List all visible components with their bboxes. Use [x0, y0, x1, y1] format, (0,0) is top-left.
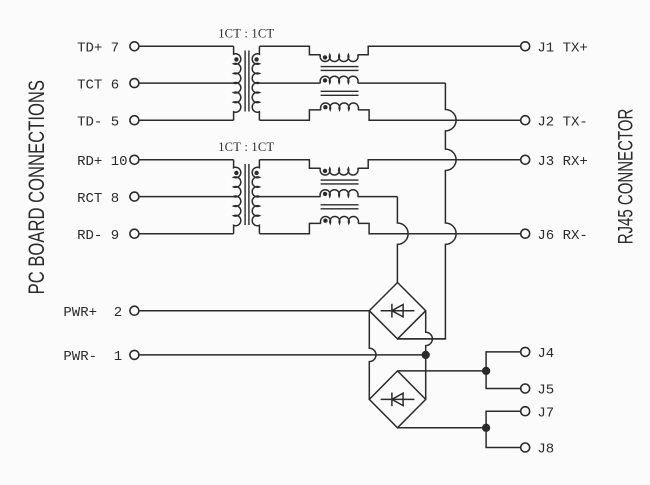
wire D2 top corner to J4/J5 junction: [398, 370, 487, 372]
connector pin J2 terminal: [521, 116, 530, 125]
wire TD- pin 5 to T1 primary: [139, 119, 234, 121]
wire T1 choke C output: [358, 110, 521, 120]
wire PWR- pin 1 to junction: [139, 354, 426, 356]
svg-text:J7: J7: [537, 405, 554, 421]
transformer T2 core line 2: [248, 164, 250, 225]
choke T2 winding B polarity dot: [323, 192, 327, 196]
transformer T2 secondary winding: [252, 160, 259, 234]
pin terminal RD+: [130, 155, 139, 164]
connector pin J1 terminal: [521, 42, 530, 51]
diode D1 lead: [381, 310, 415, 312]
svg-text:J8: J8: [537, 442, 554, 458]
pin terminal TCT: [130, 79, 139, 88]
diode D1 cathode bar: [391, 304, 393, 318]
choke T1 winding B polarity dot: [323, 78, 327, 82]
choke T1 winding C polarity dot: [323, 105, 327, 109]
choke T2 winding B: [320, 190, 358, 197]
junction dot PWR- / bridge right vertical: [422, 351, 430, 359]
diode D2 lead: [381, 398, 415, 400]
svg-text:1CT : 1CT: 1CT : 1CT: [218, 140, 274, 154]
wire bridge left vertical with hop over PWR-: [369, 311, 376, 400]
connector pin J7 terminal: [521, 407, 530, 416]
pin terminal RD-: [130, 229, 139, 238]
wire T1 secondary center tap to choke B: [259, 82, 320, 84]
svg-text:TD- 5: TD- 5: [77, 114, 119, 130]
transformer T2 secondary polarity dot: [254, 171, 258, 175]
svg-text:RD+ 10: RD+ 10: [77, 154, 127, 170]
choke T2 winding C: [321, 217, 359, 224]
connector pin J3 terminal: [521, 155, 530, 164]
choke T1 winding A: [320, 55, 358, 62]
svg-text:RJ45 CONNECTOR: RJ45 CONNECTOR: [614, 109, 637, 245]
svg-text:TCT 6: TCT 6: [77, 77, 119, 93]
choke T2 winding C polarity dot: [323, 219, 327, 223]
wire TCT pin 6 to T1 primary center tap: [139, 82, 234, 84]
pin terminal TD-: [130, 116, 139, 125]
transformer T1 primary winding: [234, 46, 241, 120]
wire bridge right vertical with hop and junction: [426, 311, 433, 400]
wire T1 secondary top to choke: [259, 46, 320, 54]
diode bridge D1 diamond outline: [369, 283, 425, 339]
choke T2 core pair 2 line 1: [321, 204, 359, 206]
choke T2 winding A: [320, 168, 358, 175]
transformer T2 core line 1: [244, 164, 246, 225]
wire T1 secondary bottom to choke C: [259, 110, 321, 120]
wire T1 choke B output to vertical: [358, 82, 446, 84]
svg-text:J1 TX+: J1 TX+: [537, 41, 587, 57]
svg-text:RCT 8: RCT 8: [77, 191, 119, 207]
diode D1 triangle: [392, 305, 403, 317]
transformer T1 secondary winding: [252, 46, 259, 120]
pin terminal PWR-&#160;&#160;1: [130, 350, 139, 359]
choke T1 winding A polarity dot: [323, 55, 327, 59]
choke T1 core pair 2 line 2: [321, 94, 359, 96]
wire net RCT-mid vertical with hop: [397, 197, 408, 283]
wire D2 bottom corner to J7/J8 junction: [398, 427, 487, 429]
wire T2 choke A output: [358, 160, 521, 168]
wire T2 choke C output: [358, 223, 521, 233]
transformer T1 core line 2: [248, 51, 250, 112]
wire TD+ pin 7 to T1 primary: [139, 45, 234, 47]
wire net TCT-mid vertical with hops: [398, 83, 457, 339]
transformer T1 secondary polarity dot: [254, 57, 258, 61]
transformer T2 primary polarity dot: [234, 171, 238, 175]
svg-text:J6 RX-: J6 RX-: [537, 228, 587, 244]
wire T1 choke A output: [358, 46, 521, 54]
transformer T1 core line 1: [244, 51, 246, 112]
connector pin J5 terminal: [521, 384, 530, 393]
junction dot J7/J8 bracket: [482, 424, 490, 432]
connector pin J8 terminal: [521, 443, 530, 452]
svg-text:J2 TX-: J2 TX-: [537, 114, 587, 130]
transformer T2 primary winding: [234, 160, 241, 234]
transformer T1 primary polarity dot: [234, 57, 238, 61]
pin terminal TD+: [130, 42, 139, 51]
choke T2 core pair 2 line 2: [321, 208, 359, 210]
choke T1 core pair 1 line 2: [321, 69, 359, 71]
svg-text:J5: J5: [537, 383, 554, 399]
svg-text:J4: J4: [537, 346, 554, 362]
svg-text:1CT : 1CT: 1CT : 1CT: [218, 27, 274, 41]
wire RCT pin 8 to T2 primary center tap: [139, 196, 234, 198]
wire T2 secondary top to choke: [259, 160, 320, 168]
diode bridge D2 diamond outline: [369, 371, 425, 428]
junction dot J4/J5 bracket: [482, 367, 490, 375]
choke T1 core pair 1 line 1: [321, 66, 359, 68]
pin terminal PWR+&#160;&#160;2: [130, 306, 139, 315]
wire T2 secondary bottom to choke C: [259, 223, 321, 233]
wire RD- pin 9 to T2 primary: [139, 233, 234, 235]
wire PWR+ pin 2 to bridge D1: [139, 310, 369, 312]
svg-text:J3 RX+: J3 RX+: [537, 154, 587, 170]
svg-text:PWR- 1: PWR- 1: [63, 349, 122, 365]
wire J4/J5 bracket: [486, 352, 521, 389]
wire J7/J8 bracket: [486, 411, 521, 447]
svg-text:PWR+ 2: PWR+ 2: [63, 305, 122, 321]
choke T2 core pair 1 line 1: [321, 179, 359, 181]
choke T1 winding C: [321, 103, 359, 110]
svg-text:PC BOARD CONNECTIONS: PC BOARD CONNECTIONS: [24, 80, 49, 294]
choke T2 core pair 1 line 2: [321, 183, 359, 185]
pin terminal RCT: [130, 192, 139, 201]
wire RD+ pin 10 to T2 primary: [139, 159, 234, 161]
connector pin J6 terminal: [521, 229, 530, 238]
svg-text:RD- 9: RD- 9: [77, 228, 119, 244]
wire T2 choke B output to vertical: [358, 196, 398, 198]
diode D2 triangle: [392, 393, 403, 405]
choke T1 core pair 2 line 1: [321, 90, 359, 92]
diode D2 cathode bar: [391, 393, 393, 407]
wire D1 bottom corner to TCT-mid vertical: [398, 338, 446, 340]
svg-text:TD+ 7: TD+ 7: [77, 41, 119, 57]
choke T1 winding B: [320, 76, 358, 83]
wire T2 secondary center tap to choke B: [259, 196, 320, 198]
connector pin J4 terminal: [521, 347, 530, 356]
choke T2 winding A polarity dot: [323, 169, 327, 173]
